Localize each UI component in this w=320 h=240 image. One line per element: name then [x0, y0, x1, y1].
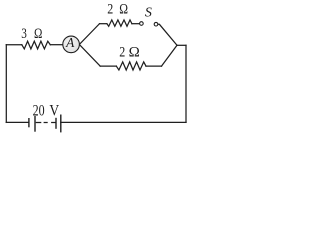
wire top-left horizontal [6, 44, 21, 46]
svg-text:S: S [145, 5, 152, 20]
battery plate tall 2 [60, 115, 62, 133]
svg-text:3: 3 [21, 26, 27, 42]
wire top branch horizontal [100, 23, 107, 25]
wire right vertical [185, 45, 187, 122]
wire junction horizontal [177, 44, 186, 46]
svg-text:20: 20 [33, 103, 45, 120]
wire fork upper diagonal [79, 24, 99, 45]
switch S terminal circle left [140, 22, 144, 26]
svg-text:V: V [49, 103, 59, 120]
wire zigzag to switch [132, 23, 140, 25]
svg-text:Ω: Ω [119, 1, 128, 17]
battery plate tall 1 [34, 116, 36, 132]
wire bottom branch diagonal to junction [162, 45, 178, 66]
battery dashed link segment 3 [51, 122, 56, 124]
wire bottom branch right horizontal [146, 65, 162, 67]
battery B1 20 V [29, 115, 61, 133]
svg-text:A: A [65, 35, 75, 50]
svg-text:2: 2 [119, 45, 125, 61]
svg-text:2: 2 [107, 1, 113, 17]
wire left vertical [5, 45, 7, 123]
battery dashed link segment 2 [44, 122, 48, 124]
wire battery to bottom right [61, 121, 186, 123]
svg-text:Ω: Ω [129, 45, 140, 61]
resistor R2 2 ohm (top) zigzag [107, 20, 132, 26]
wire resistor to ammeter [50, 44, 63, 46]
battery plate short 2 [55, 118, 57, 129]
resistor R1 3 ohm zigzag [22, 41, 51, 49]
battery dashed link segment 1 [36, 122, 42, 124]
wire bottom branch left horizontal [100, 65, 116, 67]
wire fork lower diagonal [79, 45, 100, 67]
svg-text:Ω: Ω [34, 26, 42, 42]
battery plate short 1 [28, 118, 30, 127]
wire switch stub and diagonal to junction [158, 24, 177, 45]
resistor R3 2 ohm (bottom) zigzag [116, 62, 146, 70]
switch S terminal circle right [154, 22, 158, 26]
ammeter U1 circle [63, 36, 80, 53]
wire bottom left to battery [6, 121, 29, 123]
